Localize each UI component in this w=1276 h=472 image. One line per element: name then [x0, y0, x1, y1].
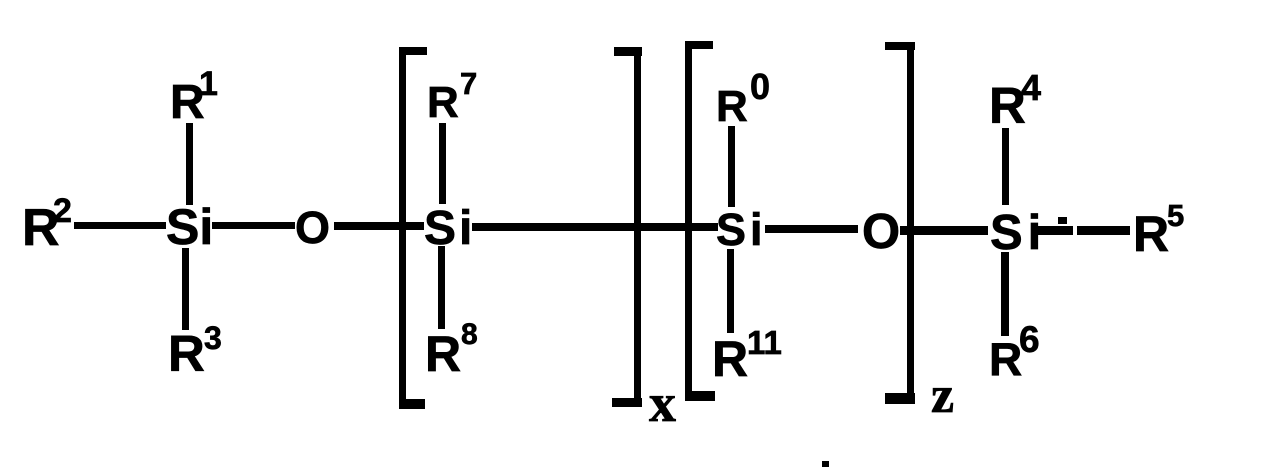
wire bond Si1-O: [212, 222, 295, 229]
svg-text:11: 11: [747, 324, 782, 361]
svg-text:2: 2: [53, 192, 72, 230]
svg-text:Si: Si: [424, 202, 475, 255]
svg-text:R: R: [1133, 206, 1169, 262]
svg-text:6: 6: [1019, 319, 1040, 360]
svg-text:R: R: [427, 78, 459, 127]
svg-text:3: 3: [204, 320, 222, 356]
wire bond R0-Si3 vertical: [728, 126, 735, 207]
node R2: [22, 192, 72, 257]
bracket left z-group: [685, 41, 715, 401]
node R5: [1133, 198, 1184, 262]
wire bond Si4-R5 part2: [1077, 226, 1130, 235]
node R4: [989, 67, 1041, 134]
svg-text:5: 5: [1167, 198, 1184, 233]
wire bond O1-Si2: [334, 222, 424, 230]
wire bond Si2-R8 vertical: [438, 246, 445, 329]
node R6: [989, 319, 1040, 385]
node R11: [712, 324, 782, 387]
node R0: [716, 66, 770, 131]
svg-text:R: R: [712, 331, 748, 387]
svg-text:1: 1: [199, 65, 218, 103]
node R7: [427, 66, 477, 127]
wire bond O2-Si4: [900, 226, 988, 235]
wire bond dot artifact: [1058, 217, 1067, 224]
node R1: [170, 65, 218, 129]
wire bond Si4-R5 part1: [1034, 226, 1073, 235]
svg-text:0: 0: [750, 66, 770, 107]
wire bond Si3-R11 vertical: [727, 249, 734, 333]
wire bond Si4-R6 vertical: [1001, 252, 1009, 336]
svg-text:O: O: [862, 205, 900, 259]
bracket right z-group: [885, 42, 915, 404]
svg-text:R: R: [168, 325, 205, 382]
svg-text:R: R: [425, 326, 461, 382]
node R8: [425, 318, 478, 382]
svg-text:R: R: [989, 333, 1022, 385]
bracket right x-group: [612, 47, 642, 407]
svg-text:z: z: [931, 367, 954, 424]
wire bond R1-Si1 vertical: [186, 123, 193, 205]
speck artifact bottom: [822, 461, 829, 467]
node R3: [168, 320, 222, 382]
svg-text:7: 7: [460, 66, 477, 101]
wire bond R4-Si4 vertical: [1002, 128, 1009, 205]
svg-text:Si: Si: [716, 204, 767, 255]
svg-text:R: R: [716, 82, 748, 131]
svg-text:4: 4: [1021, 67, 1041, 108]
svg-text:x: x: [649, 373, 676, 433]
svg-text:8: 8: [461, 318, 478, 351]
bracket left x-group: [399, 47, 427, 409]
svg-text:O: O: [295, 202, 330, 253]
wire bond R7-Si2 vertical: [439, 123, 446, 204]
wire bond Si3-O2: [765, 225, 858, 233]
wire bond Si1-R3 vertical: [182, 248, 189, 330]
wire bond Si2-Si3 long: [472, 223, 718, 231]
svg-text:Si: Si: [166, 199, 213, 255]
wire bond R2-Si1: [74, 222, 166, 229]
